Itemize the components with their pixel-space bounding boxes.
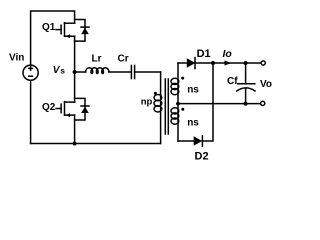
- svg-text:D2: D2: [195, 151, 209, 163]
- svg-text:D1: D1: [197, 48, 211, 60]
- svg-text:Cf: Cf: [227, 76, 238, 87]
- svg-text:Io: Io: [223, 48, 233, 60]
- svg-text:Lr: Lr: [92, 54, 102, 65]
- svg-text:Vo: Vo: [260, 79, 272, 90]
- svg-text:Vin: Vin: [9, 53, 24, 64]
- svg-text:ns: ns: [187, 85, 199, 96]
- svg-text:Cr: Cr: [118, 54, 129, 65]
- svg-text:np: np: [141, 97, 153, 108]
- svg-text:Q2: Q2: [42, 102, 56, 113]
- svg-text:s: s: [60, 65, 65, 75]
- svg-text:ns: ns: [187, 118, 199, 129]
- svg-text:Q1: Q1: [42, 22, 56, 33]
